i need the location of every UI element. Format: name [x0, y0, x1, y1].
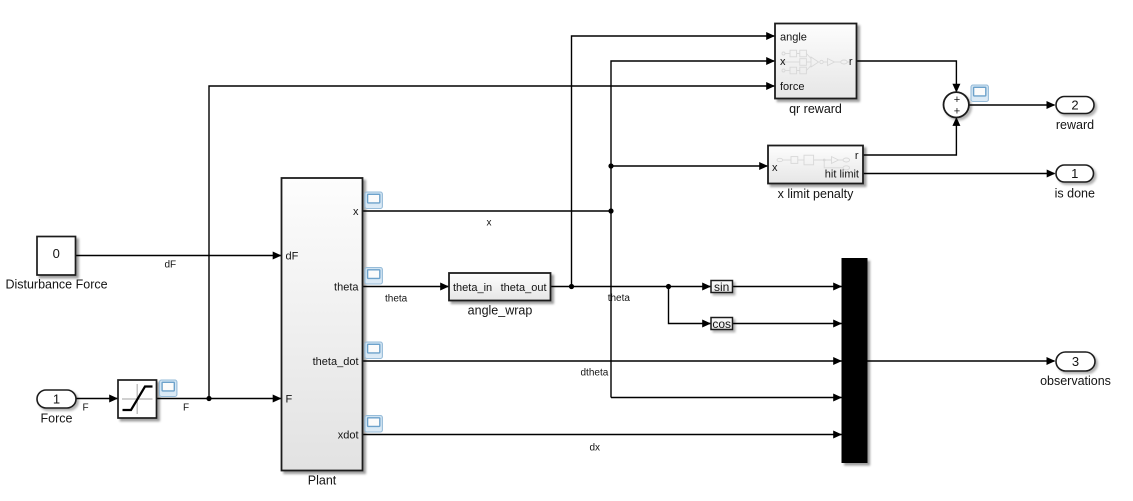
svg-text:sin: sin — [714, 280, 729, 294]
svg-text:theta_in: theta_in — [453, 282, 492, 294]
svg-text:is done: is done — [1055, 187, 1095, 201]
svg-text:Force: Force — [41, 412, 73, 426]
svg-text:x: x — [772, 162, 778, 174]
svg-text:x: x — [780, 56, 786, 68]
svg-text:1: 1 — [1071, 166, 1078, 181]
svg-text:qr reward: qr reward — [789, 102, 842, 116]
svg-text:theta_dot: theta_dot — [313, 356, 359, 368]
svg-text:dx: dx — [590, 443, 601, 454]
svg-text:reward: reward — [1056, 118, 1094, 132]
svg-text:Disturbance Force: Disturbance Force — [5, 278, 107, 292]
svg-text:2: 2 — [1071, 98, 1078, 113]
svg-text:force: force — [780, 81, 804, 93]
svg-text:theta_out: theta_out — [501, 282, 547, 294]
svg-text:F: F — [83, 403, 89, 414]
svg-text:angle_wrap: angle_wrap — [468, 304, 533, 318]
svg-text:theta: theta — [608, 293, 631, 304]
svg-text:+: + — [954, 94, 960, 106]
svg-text:3: 3 — [1072, 354, 1079, 369]
svg-text:Plant: Plant — [308, 474, 337, 488]
svg-text:1: 1 — [53, 392, 60, 407]
svg-text:0: 0 — [53, 246, 60, 261]
svg-text:F: F — [183, 403, 189, 414]
svg-text:r: r — [855, 150, 859, 162]
svg-text:observations: observations — [1040, 374, 1111, 388]
svg-text:x: x — [487, 218, 492, 229]
svg-text:dF: dF — [286, 251, 299, 263]
svg-text:dF: dF — [165, 260, 177, 271]
svg-text:hit limit: hit limit — [825, 169, 859, 181]
svg-text:theta: theta — [334, 282, 359, 294]
svg-text:xdot: xdot — [338, 430, 359, 442]
svg-text:dtheta: dtheta — [581, 368, 609, 379]
svg-text:x limit penalty: x limit penalty — [778, 187, 854, 201]
svg-text:cos: cos — [712, 317, 731, 331]
svg-text:F: F — [286, 394, 293, 406]
svg-text:+: + — [954, 106, 960, 118]
svg-text:r: r — [849, 56, 853, 68]
svg-text:theta: theta — [385, 294, 408, 305]
svg-text:x: x — [353, 206, 359, 218]
svg-text:angle: angle — [780, 32, 807, 44]
